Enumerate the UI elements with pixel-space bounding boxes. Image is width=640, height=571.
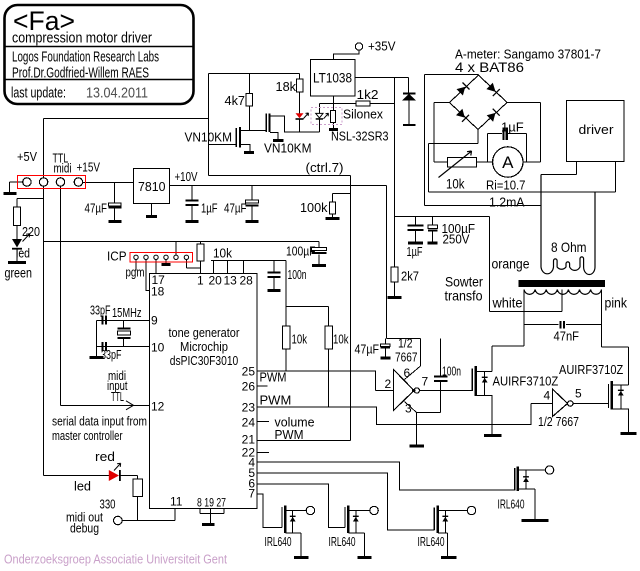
resistor R2 18k body <box>297 79 304 92</box>
svg-text:100n: 100n <box>442 364 461 379</box>
mosfet Q8 AUIRF3710Z bars <box>607 384 609 408</box>
wire +5V horizontal from connector to gate node <box>44 118 209 120</box>
node 2k7/orange rail <box>395 216 490 218</box>
terminal circle Q6 <box>545 466 553 474</box>
svg-text:18k: 18k <box>276 79 297 94</box>
wire pin6 to IRL640 Q4 <box>257 484 345 528</box>
regulator U2 LT1038 box <box>311 60 356 97</box>
title divider 1 <box>5 46 194 48</box>
svg-text:white: white <box>492 295 523 311</box>
resistor R7 10k pullup lead <box>286 261 329 372</box>
ammeter M1 circle <box>493 147 523 177</box>
svg-text:Silonex: Silonex <box>343 107 383 122</box>
ground photoresistor <box>329 128 338 131</box>
ground Q1 source <box>244 151 254 154</box>
svg-text:IRL640: IRL640 <box>265 534 292 549</box>
ground Q6 <box>522 519 549 522</box>
diode D1 leads <box>408 78 411 125</box>
opto U5 dashed box <box>311 108 342 125</box>
wire opto LED cathode <box>319 119 321 133</box>
wire driver right pin down <box>615 162 617 193</box>
wire +10V rail left (+15V feed) <box>83 182 134 184</box>
wire OUT vertical to 2k7 node <box>394 78 396 217</box>
transformer T1 core <box>519 280 606 287</box>
svg-text:4 x BAT86: 4 x BAT86 <box>455 59 524 75</box>
photoresistor R4 body <box>331 111 336 123</box>
wire Q2 drain up-right <box>270 116 320 132</box>
wire vertical riser x=208.5 (ctrl node) <box>208 74 210 176</box>
diode Q4 body <box>355 511 357 534</box>
svg-text:7667: 7667 <box>395 350 418 365</box>
transformer T1 primary coil <box>541 175 595 275</box>
wire +5V vertical main <box>43 119 45 476</box>
svg-text:250V: 250V <box>443 232 470 247</box>
wire Q2 source to ground <box>270 133 278 140</box>
svg-text:220: 220 <box>22 224 40 239</box>
svg-text:serial data input from: serial data input from <box>52 414 147 429</box>
wire pin7 to IRL640 Q3 <box>257 494 282 528</box>
svg-text:2: 2 <box>385 377 392 391</box>
svg-text:47µF: 47µF <box>85 201 108 216</box>
resistor R10 100k lead <box>333 194 351 218</box>
wire orange down to center tap <box>490 217 563 312</box>
inverter U4B 1/2 7667 triangle <box>553 389 568 417</box>
ground Q3 <box>294 556 309 559</box>
svg-text:tone generator: tone generator <box>169 325 241 340</box>
svg-text:AUIRF3710Z: AUIRF3710Z <box>493 374 559 389</box>
wire +5V rail to 100uF <box>44 242 320 248</box>
ground C10 <box>381 357 391 360</box>
wire (ctrl.7) horizontal <box>209 175 351 177</box>
mosfet Q7 AUIRF3710Z bars <box>471 369 473 392</box>
wire Q7 source to ground <box>477 396 493 436</box>
svg-text:AUIRF3710Z: AUIRF3710Z <box>559 362 623 377</box>
terminal circle Q3 <box>306 506 314 514</box>
led D2 cathode bar <box>296 118 304 120</box>
terminal circle Q5 <box>467 506 475 514</box>
wire 330 resistor vertical <box>137 476 139 521</box>
diode Q6 body <box>525 470 527 489</box>
svg-text:28: 28 <box>240 274 254 288</box>
led D3 opto triangle <box>316 113 323 118</box>
ground U4A pin3 <box>410 445 425 448</box>
svg-text:20: 20 <box>209 274 223 288</box>
ground Q4 <box>358 556 372 559</box>
svg-text:Onderzoeksgroep Associatie Uni: Onderzoeksgroep Associatie Universiteit … <box>4 552 227 567</box>
crystal X1 15MHz <box>123 321 125 347</box>
wire Q4 drain to terminal <box>349 510 371 512</box>
wire crystal pin9 <box>97 320 150 322</box>
svg-text:2k7: 2k7 <box>401 269 419 284</box>
ground C9 <box>428 242 438 245</box>
ground C3 <box>246 220 259 223</box>
svg-text:3: 3 <box>405 402 412 416</box>
wire white vertical <box>523 290 525 347</box>
svg-text:1µF: 1µF <box>407 244 423 259</box>
svg-text:11: 11 <box>170 495 183 509</box>
svg-text:TTL: TTL <box>111 389 124 404</box>
svg-text:+35V: +35V <box>368 39 396 54</box>
led D5 cathode bar <box>119 470 121 481</box>
terminal circle midi out <box>114 516 123 525</box>
svg-text:1µF: 1µF <box>501 120 524 135</box>
regulator U3 7810 box <box>134 169 170 204</box>
diode Q7 body symbol <box>482 378 488 383</box>
wire 7810 gnd <box>151 204 153 216</box>
wire ADJ rail with 1k2 <box>320 103 395 105</box>
svg-text:VN10KM: VN10KM <box>264 141 312 156</box>
svg-text:midi: midi <box>54 161 72 176</box>
resistor R10 100k body <box>330 202 336 214</box>
svg-text:(ctrl.7): (ctrl.7) <box>306 160 344 175</box>
svg-text:orange: orange <box>492 256 530 272</box>
led D3 cathode bar <box>316 118 323 120</box>
arrow at led D4 <box>23 234 30 242</box>
ground green LED <box>8 261 26 264</box>
wire pin2 input 7667 <box>376 390 394 392</box>
svg-text:4: 4 <box>544 389 551 403</box>
wire pin21 to chip <box>257 440 351 442</box>
transformer T1 secondary coil <box>524 290 602 295</box>
resistor R1 4k7 body <box>246 94 253 107</box>
capacitor C10 47uF at 7667 <box>385 339 387 358</box>
svg-text:8 19 27: 8 19 27 <box>197 496 226 510</box>
wire gate lead VN10KM Q1 <box>209 144 237 146</box>
svg-text:13: 13 <box>224 274 238 288</box>
svg-text:18: 18 <box>151 285 165 299</box>
connector J1 circles <box>23 178 31 186</box>
svg-text:transfo: transfo <box>445 288 483 304</box>
wire bridge bottom out <box>429 129 479 192</box>
svg-text:10k: 10k <box>292 332 308 347</box>
svg-text:green: green <box>5 265 33 281</box>
capacitor C12 47nF across secondary <box>524 324 602 326</box>
connector J2 ICP pin wires <box>135 260 137 271</box>
A-meter top wire <box>425 75 479 206</box>
arrow at led D3 <box>324 113 329 119</box>
bridge diode DB1 top-left <box>457 87 466 96</box>
svg-text:1k2: 1k2 <box>357 87 379 102</box>
svg-text:10k: 10k <box>333 332 349 347</box>
diode Q4 body symbol <box>353 517 359 522</box>
inverter U4A 1/2 7667 triangle <box>394 370 415 411</box>
svg-text:driver: driver <box>579 122 615 137</box>
wire top rail to 4k7/18k <box>209 73 300 75</box>
mosfet Q5 IRL640 bars <box>433 508 435 531</box>
wire Q5 source to ground <box>438 533 447 557</box>
diode Q3 body symbol <box>290 517 296 522</box>
wire primary right tap <box>594 191 596 193</box>
resistor R5 220 body <box>14 207 21 226</box>
svg-text:A: A <box>502 153 514 172</box>
svg-text:7: 7 <box>422 375 429 389</box>
resistor R8 10k body <box>325 326 333 349</box>
svg-text:10k: 10k <box>446 176 465 192</box>
capacitor C7 33pF bottom bars <box>103 342 107 351</box>
capacitor C2 1uF at 7810 out <box>191 186 193 221</box>
resistor R2 18k lead <box>299 74 301 114</box>
svg-text:Prof.Dr.Godfried-Willem RAES: Prof.Dr.Godfried-Willem RAES <box>12 65 149 82</box>
mosfet Q4 IRL640 bars <box>344 507 346 528</box>
wire pin4 input right 7667 <box>531 403 553 405</box>
capacitor C6 33pF top bars <box>103 316 107 325</box>
arrow at led D5 <box>114 463 121 470</box>
resistor R3 1k2 body <box>356 101 370 106</box>
ground C1 <box>109 220 122 223</box>
diode D1 bottom terminal bar <box>403 124 416 126</box>
led D5 red midi-out triangle <box>109 470 119 481</box>
arrowhead midi input pin12 <box>126 401 134 410</box>
svg-text:47µF: 47µF <box>224 201 247 216</box>
connector J2 ICP red outline <box>130 253 193 263</box>
wire branch to 220 resistor <box>17 198 44 200</box>
svg-text:25: 25 <box>242 365 256 379</box>
svg-text:7: 7 <box>248 487 255 501</box>
svg-text:15MHz: 15MHz <box>112 305 142 320</box>
led D4 green triangle <box>12 239 22 248</box>
svg-text:PWM: PWM <box>260 370 287 385</box>
title block frame <box>5 5 194 104</box>
wire Q3 source to ground <box>286 533 302 557</box>
connector J1 red outline <box>18 176 86 189</box>
resistor R6 10k body <box>197 244 204 261</box>
svg-text:6: 6 <box>404 366 411 380</box>
title divider 2 <box>5 79 194 81</box>
svg-text:100n: 100n <box>288 267 307 282</box>
bridge diode DB2 top-right <box>486 83 495 92</box>
ground crystal <box>90 356 104 359</box>
wire pin22 stub <box>257 452 269 454</box>
terminal circle Q4 <box>370 506 378 514</box>
svg-text:1/2: 1/2 <box>398 336 413 351</box>
wire +35V input <box>334 50 360 60</box>
svg-text:LT1038: LT1038 <box>313 70 352 86</box>
wire VDD to 7667 A and 100n <box>387 339 421 380</box>
wire crystal pin10 <box>97 346 150 348</box>
resistor R9 2k7 body <box>391 267 398 282</box>
svg-text:+10V: +10V <box>175 169 198 184</box>
mosfet Q3 IRL640 bars <box>281 507 283 528</box>
driver box <box>567 101 625 162</box>
diode D1 cathode bar <box>403 92 416 94</box>
wire driver bottom pin to primary left <box>541 162 577 175</box>
resistor R5 220 leads <box>16 199 18 240</box>
mosfet Q6 IRL640 bars <box>514 468 516 491</box>
ground Q5 <box>441 556 457 559</box>
led D4 cathode bar <box>12 248 22 250</box>
wire Q1 source to ground <box>241 145 250 152</box>
svg-text:Microchip: Microchip <box>180 339 228 354</box>
svg-text:8 Ohm: 8 Ohm <box>551 239 587 255</box>
wire red LED cathode down <box>299 119 301 132</box>
capacitor C3 47uF at +10V <box>251 186 253 221</box>
diode Q8 body symbol <box>618 391 624 396</box>
ground C2 <box>186 220 199 223</box>
wire pot to ammeter <box>477 161 493 163</box>
svg-text:33pF: 33pF <box>90 303 111 318</box>
svg-text:master controller: master controller <box>52 428 123 443</box>
wire Q1 drain to Q2 gate <box>241 130 267 132</box>
svg-text:+5V: +5V <box>17 149 37 164</box>
svg-text:PWM: PWM <box>260 393 292 408</box>
svg-text:24: 24 <box>242 416 256 430</box>
wire Q6 source to ground <box>519 489 536 520</box>
wire pin23 to inverter B input <box>257 404 531 425</box>
wire ammeter right to bridge right corner <box>507 103 541 163</box>
svg-text:led: led <box>74 479 91 494</box>
ground C5 <box>268 289 281 292</box>
wire +10V down to 7667 <box>386 186 388 339</box>
svg-text:red: red <box>95 449 115 464</box>
ground 2k7 <box>388 296 402 299</box>
svg-text:IRL640: IRL640 <box>329 534 356 549</box>
chip U1 dsPIC30F3010 box <box>150 274 258 509</box>
capacitor C4 100uF rail <box>312 248 327 251</box>
svg-text:33pF: 33pF <box>101 347 122 362</box>
diode Q3 body <box>292 511 294 534</box>
svg-text:led: led <box>16 246 30 261</box>
wire +10V rail right <box>170 185 387 187</box>
svg-text:9: 9 <box>151 314 158 328</box>
potentiometer R11 10k body <box>448 158 477 168</box>
wire Q8 source to ground <box>612 409 629 433</box>
capacitor C9 100uF 250V <box>432 217 434 243</box>
diode Q8 body <box>620 385 622 409</box>
wire midi vertical to pin12 <box>61 186 150 406</box>
wire U4A pin3 hookup <box>405 402 441 446</box>
ground Q8 <box>621 432 637 435</box>
svg-text:debug: debug <box>70 521 99 536</box>
resistor R12 330 body <box>133 479 143 497</box>
svg-text:IRL640: IRL640 <box>498 497 525 512</box>
svg-text:IRL640: IRL640 <box>418 534 445 549</box>
svg-text:NSL-32SR3: NSL-32SR3 <box>331 129 389 144</box>
svg-text:last update:: last update: <box>11 85 66 102</box>
svg-text:47nF: 47nF <box>554 329 580 344</box>
wire red LED2 feed <box>44 475 138 477</box>
svg-text:26: 26 <box>242 380 256 394</box>
wire ctrl.7 vertical down to pin21 <box>350 176 352 441</box>
ground C8 <box>408 242 423 245</box>
svg-text:pink: pink <box>605 295 628 311</box>
bridge diode DB4 bottom-right <box>487 113 496 122</box>
wire Q4 source to ground <box>349 533 365 557</box>
ground 7810 <box>146 215 157 218</box>
connector J1 midi pin1 to ground <box>10 182 24 193</box>
svg-text:10k: 10k <box>213 246 232 261</box>
wire pin11 to midi out <box>123 509 176 521</box>
svg-text:12: 12 <box>151 400 165 414</box>
diode Q7 body <box>484 372 486 396</box>
wire pin4 to IRL640 Q6 <box>257 462 515 490</box>
ground Q2 source <box>273 139 284 142</box>
wire pin26 stub <box>257 385 268 387</box>
svg-text:100k: 100k <box>300 200 328 215</box>
diode Q5 body <box>444 511 446 534</box>
svg-text:1: 1 <box>197 274 204 288</box>
resistor R6 10k MCLR lead <box>200 242 202 274</box>
wire green LED cathode <box>16 249 18 263</box>
bridge diode DB3 bottom-left <box>456 109 465 118</box>
resistor R8 10k pullup lead <box>328 307 330 408</box>
wire Q3 drain to terminal <box>286 510 307 512</box>
svg-text:Logos Foundation Research Labs: Logos Foundation Research Labs <box>12 49 159 66</box>
ground Q7 <box>484 434 502 437</box>
wire Q6 drain to terminal <box>519 469 546 471</box>
wire chip supply pins 20 13 28 <box>211 261 286 274</box>
svg-text:23: 23 <box>242 401 256 415</box>
wire 1.2mA rail <box>425 205 542 207</box>
wire LT1038 ADJ pin down <box>333 96 335 104</box>
wire LT1038 OUT <box>355 77 409 79</box>
resistor R9 2k7 lead <box>394 217 396 297</box>
capacitor C1 47uF at connector <box>114 183 116 221</box>
svg-text:13.04.2011: 13.04.2011 <box>86 85 148 102</box>
inverter U4A bubble <box>414 388 419 393</box>
svg-text:47µF: 47µF <box>355 342 380 357</box>
wire pin24 stub <box>257 421 269 423</box>
wire chip pins 8 19 27 to ground <box>200 509 224 524</box>
wire bridge left corner to pot <box>434 103 450 163</box>
transistor Q2 VN10KM bars <box>265 114 267 133</box>
ground 100k <box>326 217 340 220</box>
svg-text:PWM: PWM <box>275 427 304 442</box>
ground J1 <box>4 192 17 195</box>
node dot at U4A output <box>412 389 415 392</box>
svg-text:10: 10 <box>151 341 165 355</box>
bridge rectifier 4xBAT86 diamond <box>450 75 508 130</box>
wire Q8 drain to pink <box>602 347 629 385</box>
svg-text:dsPIC30F3010: dsPIC30F3010 <box>170 353 239 368</box>
transistor Q1 VN10KM bars <box>235 128 237 147</box>
svg-text:Ri=10.7: Ri=10.7 <box>486 178 526 193</box>
capacitor C8 1uF at orange rail <box>415 217 417 243</box>
capacitor C13 1uF parallel ammeter <box>488 134 527 163</box>
svg-text:ICP: ICP <box>107 249 127 264</box>
wire Q5 drain to terminal <box>438 510 468 512</box>
svg-text:100µF: 100µF <box>286 244 316 259</box>
svg-text:pgm: pgm <box>126 265 145 280</box>
resistor R7 10k body <box>283 326 291 349</box>
wire crystal left side + ground <box>96 321 98 357</box>
capacitor C11 100n at 7667 <box>440 339 442 413</box>
svg-text:1.2mA: 1.2mA <box>489 195 525 210</box>
inverter U4B bubble <box>568 401 573 406</box>
led D2 red triangle <box>296 113 304 118</box>
wire Q7 drain to white <box>477 346 525 372</box>
ground C4 <box>312 264 326 267</box>
wire U4B output to Q8 gate <box>573 403 609 405</box>
terminal circle +35V <box>355 43 362 50</box>
svg-text:compression motor driver: compression motor driver <box>12 31 152 47</box>
photoresistor R4 leads <box>333 104 335 129</box>
svg-text:5: 5 <box>575 387 582 401</box>
resistor R1 4k7 lead <box>249 74 251 132</box>
wire U4A output to Q7 gate <box>420 390 473 392</box>
svg-text:1µF: 1µF <box>201 201 218 216</box>
connector J2 circles <box>134 255 138 259</box>
diode D1 triangle <box>402 94 416 101</box>
ground ICP pin4 <box>162 263 171 266</box>
wire pink vertical <box>601 290 603 348</box>
wire pin5 to IRL640 Q5 <box>257 473 435 530</box>
diode Q6 body symbol <box>523 477 529 482</box>
svg-text:1/2 7667: 1/2 7667 <box>538 414 579 429</box>
svg-text:+15V: +15V <box>77 160 101 175</box>
ground pins 8 19 27 <box>202 523 215 526</box>
svg-text:7810: 7810 <box>138 179 166 194</box>
diode Q5 body symbol <box>442 517 448 522</box>
